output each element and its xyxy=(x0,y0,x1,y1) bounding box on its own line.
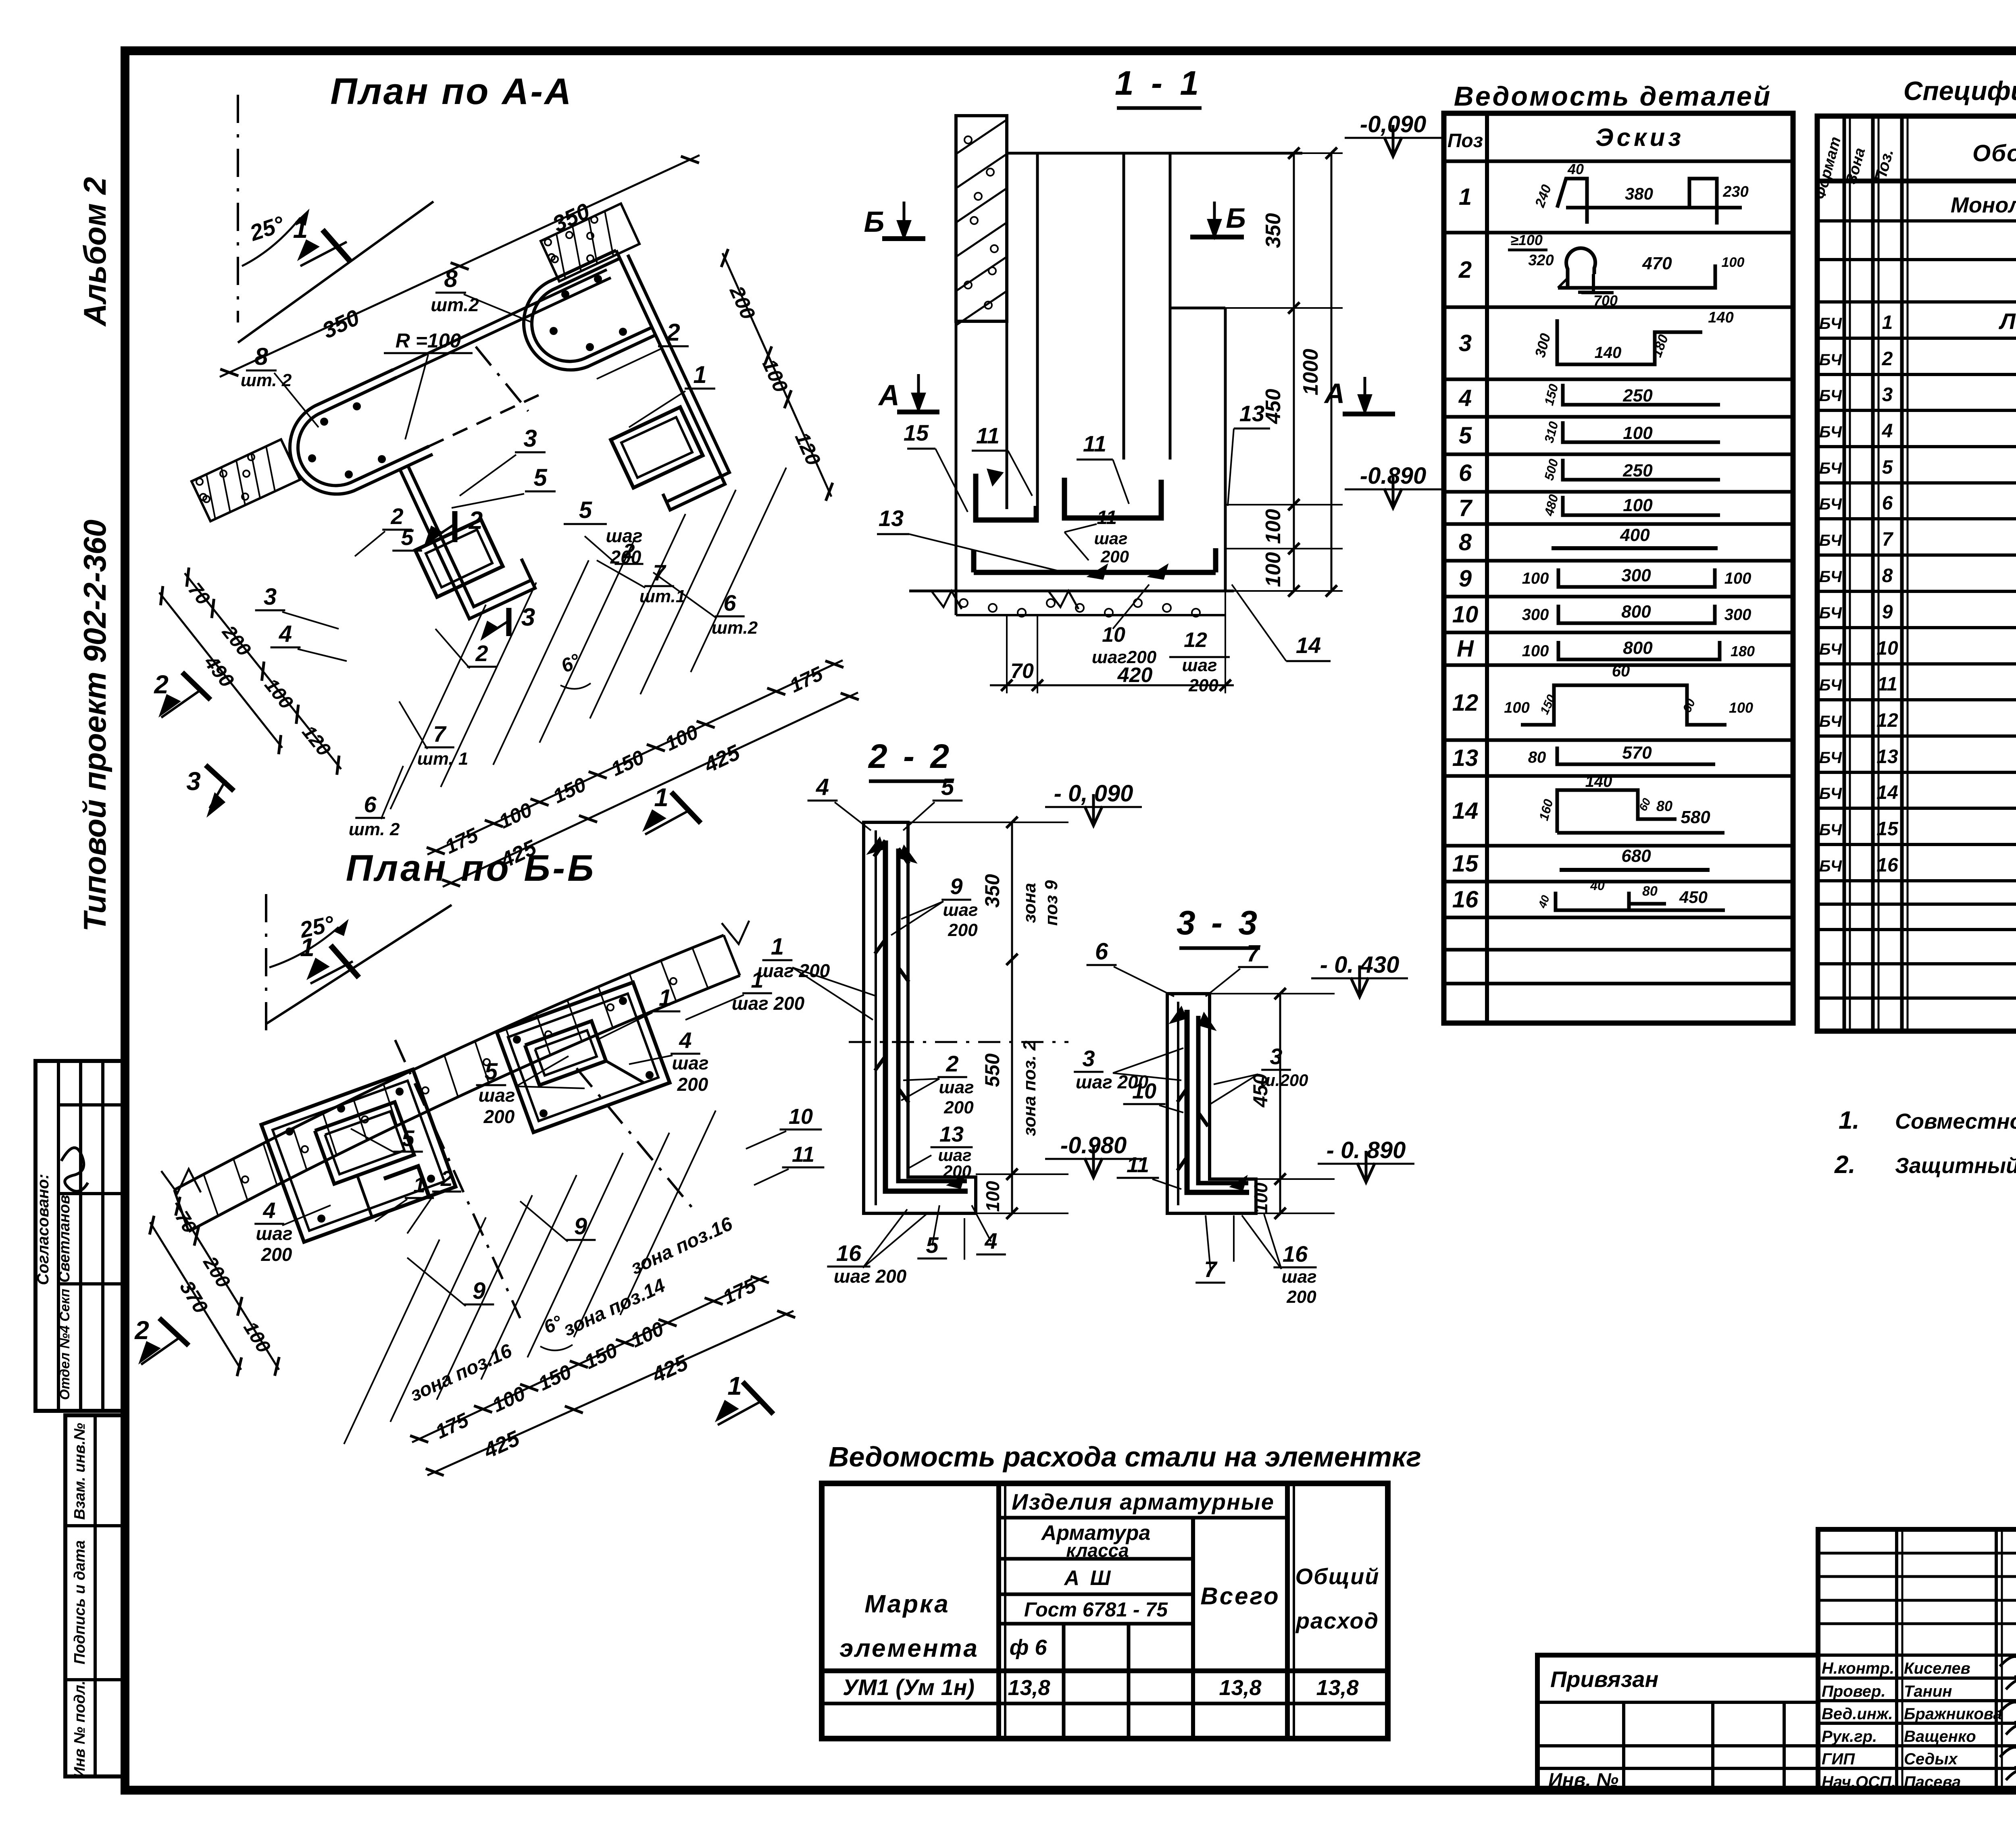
svg-text:80: 80 xyxy=(1656,798,1672,814)
sketch row11 xyxy=(1558,641,1720,659)
svg-text:13: 13 xyxy=(1876,746,1898,768)
svg-text:15: 15 xyxy=(1452,851,1479,877)
svg-text:40: 40 xyxy=(1590,878,1605,893)
svg-text:Рук.гр.: Рук.гр. xyxy=(1822,1728,1877,1745)
svg-text:А Ш: А Ш xyxy=(1064,1566,1113,1590)
plan B-B fan extension lines xyxy=(344,1240,439,1444)
svg-text:3: 3 xyxy=(523,425,537,452)
svg-text:5: 5 xyxy=(401,524,414,550)
svg-text:3: 3 xyxy=(521,603,535,631)
svg-text:Отдел №4 Секп: Отдел №4 Секп xyxy=(57,1289,73,1400)
svg-text:4: 4 xyxy=(816,774,829,800)
svg-text:400: 400 xyxy=(1620,525,1650,545)
svg-text:10: 10 xyxy=(1132,1079,1156,1103)
plan A-A left hatch strip xyxy=(192,439,300,521)
svg-text:8: 8 xyxy=(1882,565,1893,587)
svg-text:300: 300 xyxy=(1522,606,1549,624)
svg-text:шаг 200: шаг 200 xyxy=(757,960,830,981)
svg-text:11: 11 xyxy=(1083,431,1106,456)
svg-text:Лист 14: Лист 14 xyxy=(1998,308,2016,334)
plan A-A upper right wall descending xyxy=(616,250,725,510)
svg-text:элемента: элемента xyxy=(839,1635,979,1662)
svg-text:1: 1 xyxy=(300,933,314,962)
svg-text:Монолитный участок Ум1 шт1.: Монолитный участок Ум1 шт1. Ум1н шт1 xyxy=(1951,193,2016,217)
svg-text:5: 5 xyxy=(941,774,954,800)
section 3-3 rebar xyxy=(1187,1010,1249,1192)
svg-text:8: 8 xyxy=(444,265,458,292)
svg-text:А: А xyxy=(878,379,900,412)
svg-text:класса: класса xyxy=(1066,1540,1129,1561)
svg-text:ш.200: ш.200 xyxy=(1260,1071,1308,1090)
svg-text:Общий: Общий xyxy=(1295,1564,1379,1589)
svg-text:200: 200 xyxy=(943,1162,971,1181)
svg-text:6: 6 xyxy=(364,792,377,817)
svg-text:450: 450 xyxy=(1679,888,1708,907)
svg-text:зона: зона xyxy=(1020,883,1039,923)
svg-text:Спецификация монолитного уч: Спецификация монолитного участка Ум (Ум1… xyxy=(1904,76,2016,106)
svg-text:3: 3 xyxy=(1270,1044,1282,1069)
svg-text:шт.1: шт.1 xyxy=(639,587,685,606)
section 1-1 slab rebar xyxy=(976,474,1036,520)
svg-text:250: 250 xyxy=(1622,461,1653,480)
svg-text:9: 9 xyxy=(574,1213,587,1240)
svg-text:Согласовано:: Согласовано: xyxy=(34,1174,52,1285)
svg-text:Ващенко: Ващенко xyxy=(1904,1728,1976,1745)
svg-text:6: 6 xyxy=(1459,460,1472,486)
title block: privyazan box xyxy=(1537,1655,1818,1792)
svg-text:9: 9 xyxy=(1882,601,1893,623)
sketch row14 xyxy=(1557,790,1677,833)
svg-text:14: 14 xyxy=(1876,782,1898,803)
svg-text:550: 550 xyxy=(981,1053,1004,1087)
svg-text:3: 3 xyxy=(1459,330,1472,356)
plan A-A cut mark 3 mid xyxy=(506,608,512,636)
svg-text:Инв. №: Инв. № xyxy=(1548,1770,1618,1791)
section 1-1 A cut mark xyxy=(1343,412,1395,416)
svg-text:Привязан: Привязан xyxy=(1550,1666,1658,1692)
section 2-2 right dims xyxy=(1011,822,1013,1213)
svg-text:План по Б-Б: План по Б-Б xyxy=(346,848,596,889)
svg-text:230: 230 xyxy=(1722,183,1748,200)
svg-text:14: 14 xyxy=(1452,798,1479,824)
svg-text:140: 140 xyxy=(1595,344,1622,362)
svg-text:расход: расход xyxy=(1295,1608,1379,1633)
svg-text:100: 100 xyxy=(1724,570,1752,587)
svg-text:БЧ: БЧ xyxy=(1819,604,1842,622)
svg-text:БЧ: БЧ xyxy=(1819,749,1842,767)
svg-text:6: 6 xyxy=(723,590,736,616)
svg-text:16: 16 xyxy=(1283,1241,1308,1267)
svg-text:ф 6: ф 6 xyxy=(1010,1635,1048,1660)
svg-text:БЧ: БЧ xyxy=(1819,387,1842,405)
svg-text:1.: 1. xyxy=(1839,1107,1860,1134)
svg-text:5: 5 xyxy=(533,464,548,491)
plan A-A dim 350+350 xyxy=(220,155,700,377)
svg-text:200: 200 xyxy=(943,1098,974,1117)
svg-text:шт.2: шт.2 xyxy=(712,618,758,638)
svg-text:100: 100 xyxy=(1250,1182,1271,1213)
svg-text:200: 200 xyxy=(1286,1287,1316,1307)
svg-text:680: 680 xyxy=(1621,846,1651,866)
plan A-A upper stirrup box xyxy=(611,407,703,488)
svg-text:Нач.ОСП.: Нач.ОСП. xyxy=(1822,1773,1896,1791)
svg-text:15: 15 xyxy=(1876,818,1899,840)
svg-text:13: 13 xyxy=(1452,745,1479,771)
plan B-B right structure xyxy=(497,982,670,1132)
svg-text:БЧ: БЧ xyxy=(1819,641,1842,658)
svg-text:Эскиз: Эскиз xyxy=(1595,124,1684,152)
svg-text:Защитный слой бетона 20 мм.: Защитный слой бетона 20 мм. xyxy=(1895,1154,2016,1178)
svg-text:БЧ: БЧ xyxy=(1819,315,1842,333)
svg-text:2: 2 xyxy=(134,1316,149,1345)
svg-text:шаг: шаг xyxy=(478,1085,515,1106)
svg-text:14: 14 xyxy=(1296,632,1321,658)
svg-text:570: 570 xyxy=(1622,743,1652,763)
svg-text:7: 7 xyxy=(1459,495,1473,521)
sketch row8 xyxy=(1552,546,1718,550)
svg-text:3: 3 xyxy=(1082,1046,1095,1071)
svg-text:100: 100 xyxy=(1262,552,1285,587)
svg-text:шт. 1: шт. 1 xyxy=(417,749,469,769)
svg-text:поз 9: поз 9 xyxy=(1041,880,1061,926)
section 1-1 hatched wall strip xyxy=(956,116,1007,321)
section 3-3 right dims xyxy=(1279,994,1281,1213)
sketch row5 xyxy=(1563,421,1720,442)
sketch row4 xyxy=(1563,384,1720,405)
sidebar table: Soglasovano block xyxy=(35,1061,125,1411)
svg-text:R =100: R =100 xyxy=(396,329,461,352)
svg-text:Провер.: Провер. xyxy=(1822,1683,1886,1700)
svg-text:Б: Б xyxy=(1226,202,1246,234)
svg-text:Танин: Танин xyxy=(1904,1683,1952,1700)
svg-text:шаг: шаг xyxy=(1281,1267,1316,1287)
svg-text:180: 180 xyxy=(1731,643,1755,659)
svg-text:700: 700 xyxy=(1593,292,1618,309)
svg-text:1: 1 xyxy=(1882,312,1893,333)
svg-text:13: 13 xyxy=(939,1122,964,1146)
section 1-1 wall lines xyxy=(955,321,958,615)
svg-text:300: 300 xyxy=(1621,566,1651,585)
svg-text:1: 1 xyxy=(693,361,706,388)
svg-text:3 - 3: 3 - 3 xyxy=(1177,904,1260,942)
plan B-B cut mark 1 top xyxy=(331,945,359,978)
B cut mark left of vedomost xyxy=(882,236,925,241)
svg-text:шаг: шаг xyxy=(256,1223,292,1244)
svg-text:≥100: ≥100 xyxy=(1510,232,1543,248)
svg-text:7: 7 xyxy=(1882,529,1894,550)
svg-text:200: 200 xyxy=(677,1074,708,1095)
sketch row3 xyxy=(1557,319,1702,364)
plan A-A lower U-structure xyxy=(290,370,433,494)
svg-text:5: 5 xyxy=(1882,457,1893,478)
svg-text:320: 320 xyxy=(1528,252,1554,269)
svg-text:БЧ: БЧ xyxy=(1819,532,1842,549)
plan A-A cut mark 1 bottom xyxy=(671,792,701,823)
svg-text:7: 7 xyxy=(1204,1256,1218,1282)
svg-text:9: 9 xyxy=(950,874,962,899)
svg-text:БЧ: БЧ xyxy=(1819,568,1842,586)
svg-text:4: 4 xyxy=(1458,385,1472,411)
svg-text:140: 140 xyxy=(1585,773,1612,790)
svg-text:Всего: Всего xyxy=(1200,1583,1280,1610)
svg-text:2: 2 xyxy=(623,540,635,563)
sketch row16 xyxy=(1556,892,1666,910)
svg-text:100: 100 xyxy=(1623,423,1653,443)
svg-text:100: 100 xyxy=(1262,509,1285,544)
section 2-2 rebar xyxy=(885,840,968,1191)
svg-text:БЧ: БЧ xyxy=(1819,460,1842,477)
svg-text:1 - 1: 1 - 1 xyxy=(1115,64,1203,102)
svg-text:7: 7 xyxy=(433,721,447,747)
svg-text:580: 580 xyxy=(1681,807,1710,827)
svg-text:Типовой проект 902-2-360: Типовой проект 902-2-360 xyxy=(77,520,112,932)
svg-text:1: 1 xyxy=(771,934,784,960)
svg-text:БЧ: БЧ xyxy=(1819,857,1842,875)
svg-text:60: 60 xyxy=(1612,662,1630,680)
svg-text:8: 8 xyxy=(1459,529,1472,555)
svg-text:зона поз. 2: зона поз. 2 xyxy=(1020,1040,1039,1136)
svg-text:250: 250 xyxy=(1622,386,1653,406)
svg-text:800: 800 xyxy=(1621,602,1651,622)
svg-text:140: 140 xyxy=(1708,309,1733,326)
svg-text:Обозначение: Обозначение xyxy=(1972,140,2016,166)
svg-text:10: 10 xyxy=(789,1104,813,1129)
svg-text:1: 1 xyxy=(1459,184,1472,210)
svg-text:10: 10 xyxy=(1876,638,1898,659)
section 1-1 slab outline xyxy=(956,509,1225,591)
svg-text:2: 2 xyxy=(1458,257,1472,283)
svg-text:Ведомость расхода стали на: Ведомость расхода стали на элементкг xyxy=(829,1441,1421,1473)
plan A-A centerline xyxy=(237,95,239,322)
svg-text:шаг: шаг xyxy=(939,1077,974,1097)
svg-text:1: 1 xyxy=(727,1371,742,1400)
svg-text:БЧ: БЧ xyxy=(1819,351,1842,369)
svg-text:6: 6 xyxy=(1882,493,1893,514)
section 3-3 wall outline xyxy=(1167,994,1256,1213)
svg-text:Ведомость деталей: Ведомость деталей xyxy=(1454,81,1772,112)
svg-text:200: 200 xyxy=(948,920,978,940)
svg-text:1000: 1000 xyxy=(1299,349,1322,395)
svg-text:13,8: 13,8 xyxy=(1219,1676,1261,1700)
svg-text:Пасева: Пасева xyxy=(1904,1773,1961,1791)
svg-text:12: 12 xyxy=(1876,710,1898,731)
plan A-A cut mark 2 mid xyxy=(452,511,458,542)
svg-text:16: 16 xyxy=(1876,855,1898,876)
svg-text:Бражникова: Бражникова xyxy=(1904,1705,2002,1723)
svg-text:7: 7 xyxy=(1247,940,1261,967)
svg-text:Н: Н xyxy=(1457,636,1474,662)
svg-text:470: 470 xyxy=(1642,254,1672,273)
svg-text:3: 3 xyxy=(264,584,277,610)
svg-text:80: 80 xyxy=(1642,884,1658,899)
plan A-A upper hatch strip xyxy=(541,204,639,281)
svg-text:5: 5 xyxy=(1459,422,1472,449)
plan A-A upper U-structure xyxy=(524,250,656,370)
plan B-B centerline xyxy=(265,894,267,1032)
svg-text:2: 2 xyxy=(469,507,483,535)
svg-text:шт. 2: шт. 2 xyxy=(349,820,400,839)
section 1-1 right dims xyxy=(1293,153,1295,591)
sketch row10 xyxy=(1558,605,1715,623)
svg-text:2: 2 xyxy=(440,1167,453,1191)
svg-text:13: 13 xyxy=(1239,401,1264,426)
svg-text:шаг: шаг xyxy=(1182,655,1217,675)
svg-text:4: 4 xyxy=(279,621,292,647)
svg-text:А: А xyxy=(1324,378,1345,409)
svg-text:11: 11 xyxy=(1097,507,1117,528)
svg-text:450: 450 xyxy=(1262,389,1285,424)
svg-text:шаг: шаг xyxy=(943,900,978,920)
svg-text:13,8: 13,8 xyxy=(1008,1676,1050,1700)
svg-text:200: 200 xyxy=(261,1244,292,1265)
svg-text:70: 70 xyxy=(1010,659,1034,683)
svg-text:12: 12 xyxy=(1184,628,1207,652)
svg-text:2: 2 xyxy=(475,641,488,666)
svg-text:Б: Б xyxy=(864,206,885,238)
svg-text:11: 11 xyxy=(792,1142,814,1167)
svg-text:Светланов: Светланов xyxy=(56,1195,73,1283)
signature squiggle xyxy=(61,1148,88,1191)
section 2-2 wall outline xyxy=(864,822,976,1213)
svg-text:Подпись и дата: Подпись и дата xyxy=(71,1540,88,1664)
sketch row13 xyxy=(1557,747,1715,764)
svg-text:1: 1 xyxy=(654,783,669,812)
svg-text:16: 16 xyxy=(836,1240,862,1266)
svg-text:2: 2 xyxy=(1882,348,1893,370)
svg-text:1: 1 xyxy=(659,985,672,1011)
svg-text:4: 4 xyxy=(1882,420,1893,442)
svg-text:2: 2 xyxy=(666,319,680,346)
sketch row1 xyxy=(1557,179,1587,224)
svg-text:800: 800 xyxy=(1623,638,1653,658)
plan A-A cut mark 1 top xyxy=(323,230,351,262)
svg-text:шт. 2: шт. 2 xyxy=(241,370,292,390)
table: specification grid xyxy=(1817,116,2016,1031)
sketch row7 xyxy=(1563,496,1720,515)
svg-text:300: 300 xyxy=(1724,606,1752,624)
svg-text:13,8: 13,8 xyxy=(1316,1676,1358,1700)
svg-text:8: 8 xyxy=(254,343,268,370)
svg-text:Совместно с настоящим листом: Совместно с настоящим листом смотреть ли… xyxy=(1895,1109,2016,1134)
plan B-B bottom dim fan xyxy=(412,1276,767,1442)
plan A-A left dim chain 70/200/100/120 xyxy=(185,573,341,769)
section 1-1 ground xyxy=(909,590,1234,593)
svg-text:шаг 200: шаг 200 xyxy=(834,1266,907,1287)
svg-text:5: 5 xyxy=(402,1125,414,1151)
svg-text:Вед.инж.: Вед.инж. xyxy=(1822,1705,1893,1723)
svg-text:80: 80 xyxy=(1528,749,1546,766)
svg-text:БЧ: БЧ xyxy=(1819,676,1842,694)
svg-text:4: 4 xyxy=(262,1198,275,1223)
svg-text:200: 200 xyxy=(1100,547,1129,566)
plan B-B left dim chain 70/200/100 + 370 xyxy=(176,1203,279,1370)
svg-text:Взам. инв.№: Взам. инв.№ xyxy=(71,1423,88,1520)
svg-text:3: 3 xyxy=(186,767,201,796)
svg-text:2: 2 xyxy=(946,1051,958,1076)
table: vedomost detaley grid xyxy=(1444,113,1793,1023)
svg-text:БЧ: БЧ xyxy=(1819,713,1842,730)
sketch row15 xyxy=(1560,868,1710,872)
plan A-A right dim chain 200/100/120 xyxy=(723,253,831,497)
svg-text:420: 420 xyxy=(1117,664,1153,687)
plan A-A connector wall xyxy=(393,270,607,370)
svg-text:УМ1 (Ум 1н): УМ1 (Ум 1н) xyxy=(843,1674,975,1700)
section 2-2 centerline xyxy=(849,1041,1068,1043)
svg-text:Киселев: Киселев xyxy=(1904,1660,1970,1677)
svg-text:350: 350 xyxy=(981,874,1004,908)
svg-text:Седых: Седых xyxy=(1904,1750,1958,1768)
svg-text:350: 350 xyxy=(1262,213,1285,248)
svg-text:шаг: шаг xyxy=(1094,529,1127,548)
svg-text:6: 6 xyxy=(1095,938,1108,965)
svg-text:100: 100 xyxy=(982,1181,1003,1212)
svg-text:9: 9 xyxy=(473,1278,485,1304)
svg-text:15: 15 xyxy=(904,420,929,445)
plan A-A cut mark 3 left xyxy=(206,765,234,791)
svg-text:Поз: Поз xyxy=(1447,130,1483,152)
A cut mark left of vedomost xyxy=(897,410,939,414)
plan A-A cut mark 2 left xyxy=(182,672,210,700)
svg-text:Инв № подл.: Инв № подл. xyxy=(71,1681,88,1778)
svg-text:Альбом 2: Альбом 2 xyxy=(77,177,112,327)
svg-text:11: 11 xyxy=(1877,674,1897,695)
sketch row9 xyxy=(1558,568,1715,587)
svg-text:380: 380 xyxy=(1625,184,1653,203)
svg-text:ГИП: ГИП xyxy=(1822,1750,1855,1768)
svg-text:5: 5 xyxy=(579,497,592,523)
svg-text:шаг: шаг xyxy=(672,1052,708,1073)
svg-text:12: 12 xyxy=(1452,690,1479,716)
sidebar table: Vzam/Podpis/Inv block xyxy=(65,1415,125,1776)
svg-text:2: 2 xyxy=(154,670,169,699)
svg-text:200: 200 xyxy=(483,1106,515,1127)
svg-text:100: 100 xyxy=(1722,255,1745,270)
plan B-B cut mark 1 bottom xyxy=(743,1382,773,1414)
sketch row6 xyxy=(1563,459,1720,480)
section 1-1 B cut mark xyxy=(1190,235,1244,239)
svg-text:БЧ: БЧ xyxy=(1819,785,1842,803)
plan B-B curved hatch band xyxy=(174,935,724,1190)
svg-text:1: 1 xyxy=(293,214,308,243)
svg-text:БЧ: БЧ xyxy=(1819,495,1842,513)
svg-text:Марка: Марка xyxy=(864,1590,950,1618)
plan A-A lower stirrup boxes xyxy=(415,520,503,597)
svg-text:1: 1 xyxy=(413,1173,425,1197)
plan B-B left structure xyxy=(261,1069,456,1242)
svg-text:16: 16 xyxy=(1452,886,1479,913)
sketch row12 xyxy=(1521,685,1727,725)
svg-text:40: 40 xyxy=(1567,161,1584,177)
svg-text:3: 3 xyxy=(1882,384,1893,406)
title block: signature table xyxy=(1818,1529,2016,1792)
svg-text:Гост 6781 - 75: Гост 6781 - 75 xyxy=(1024,1598,1168,1621)
svg-text:5: 5 xyxy=(485,1059,498,1085)
plan B-B rebar dots xyxy=(285,1127,294,1136)
section 1-1 bottom dims xyxy=(990,684,1234,686)
svg-text:4: 4 xyxy=(679,1027,691,1053)
svg-text:100: 100 xyxy=(1623,495,1653,515)
svg-text:БЧ: БЧ xyxy=(1819,423,1842,441)
svg-text:9: 9 xyxy=(1459,566,1472,592)
svg-text:11: 11 xyxy=(976,423,1000,448)
svg-text:100: 100 xyxy=(1522,570,1549,587)
plan A-A rebar dots xyxy=(320,418,328,426)
plan A-A bottom dim fan xyxy=(427,660,843,855)
svg-text:13: 13 xyxy=(879,505,904,531)
svg-text:БЧ: БЧ xyxy=(1819,821,1842,839)
svg-text:2 - 2: 2 - 2 xyxy=(868,737,952,775)
svg-text:2.: 2. xyxy=(1834,1151,1856,1179)
